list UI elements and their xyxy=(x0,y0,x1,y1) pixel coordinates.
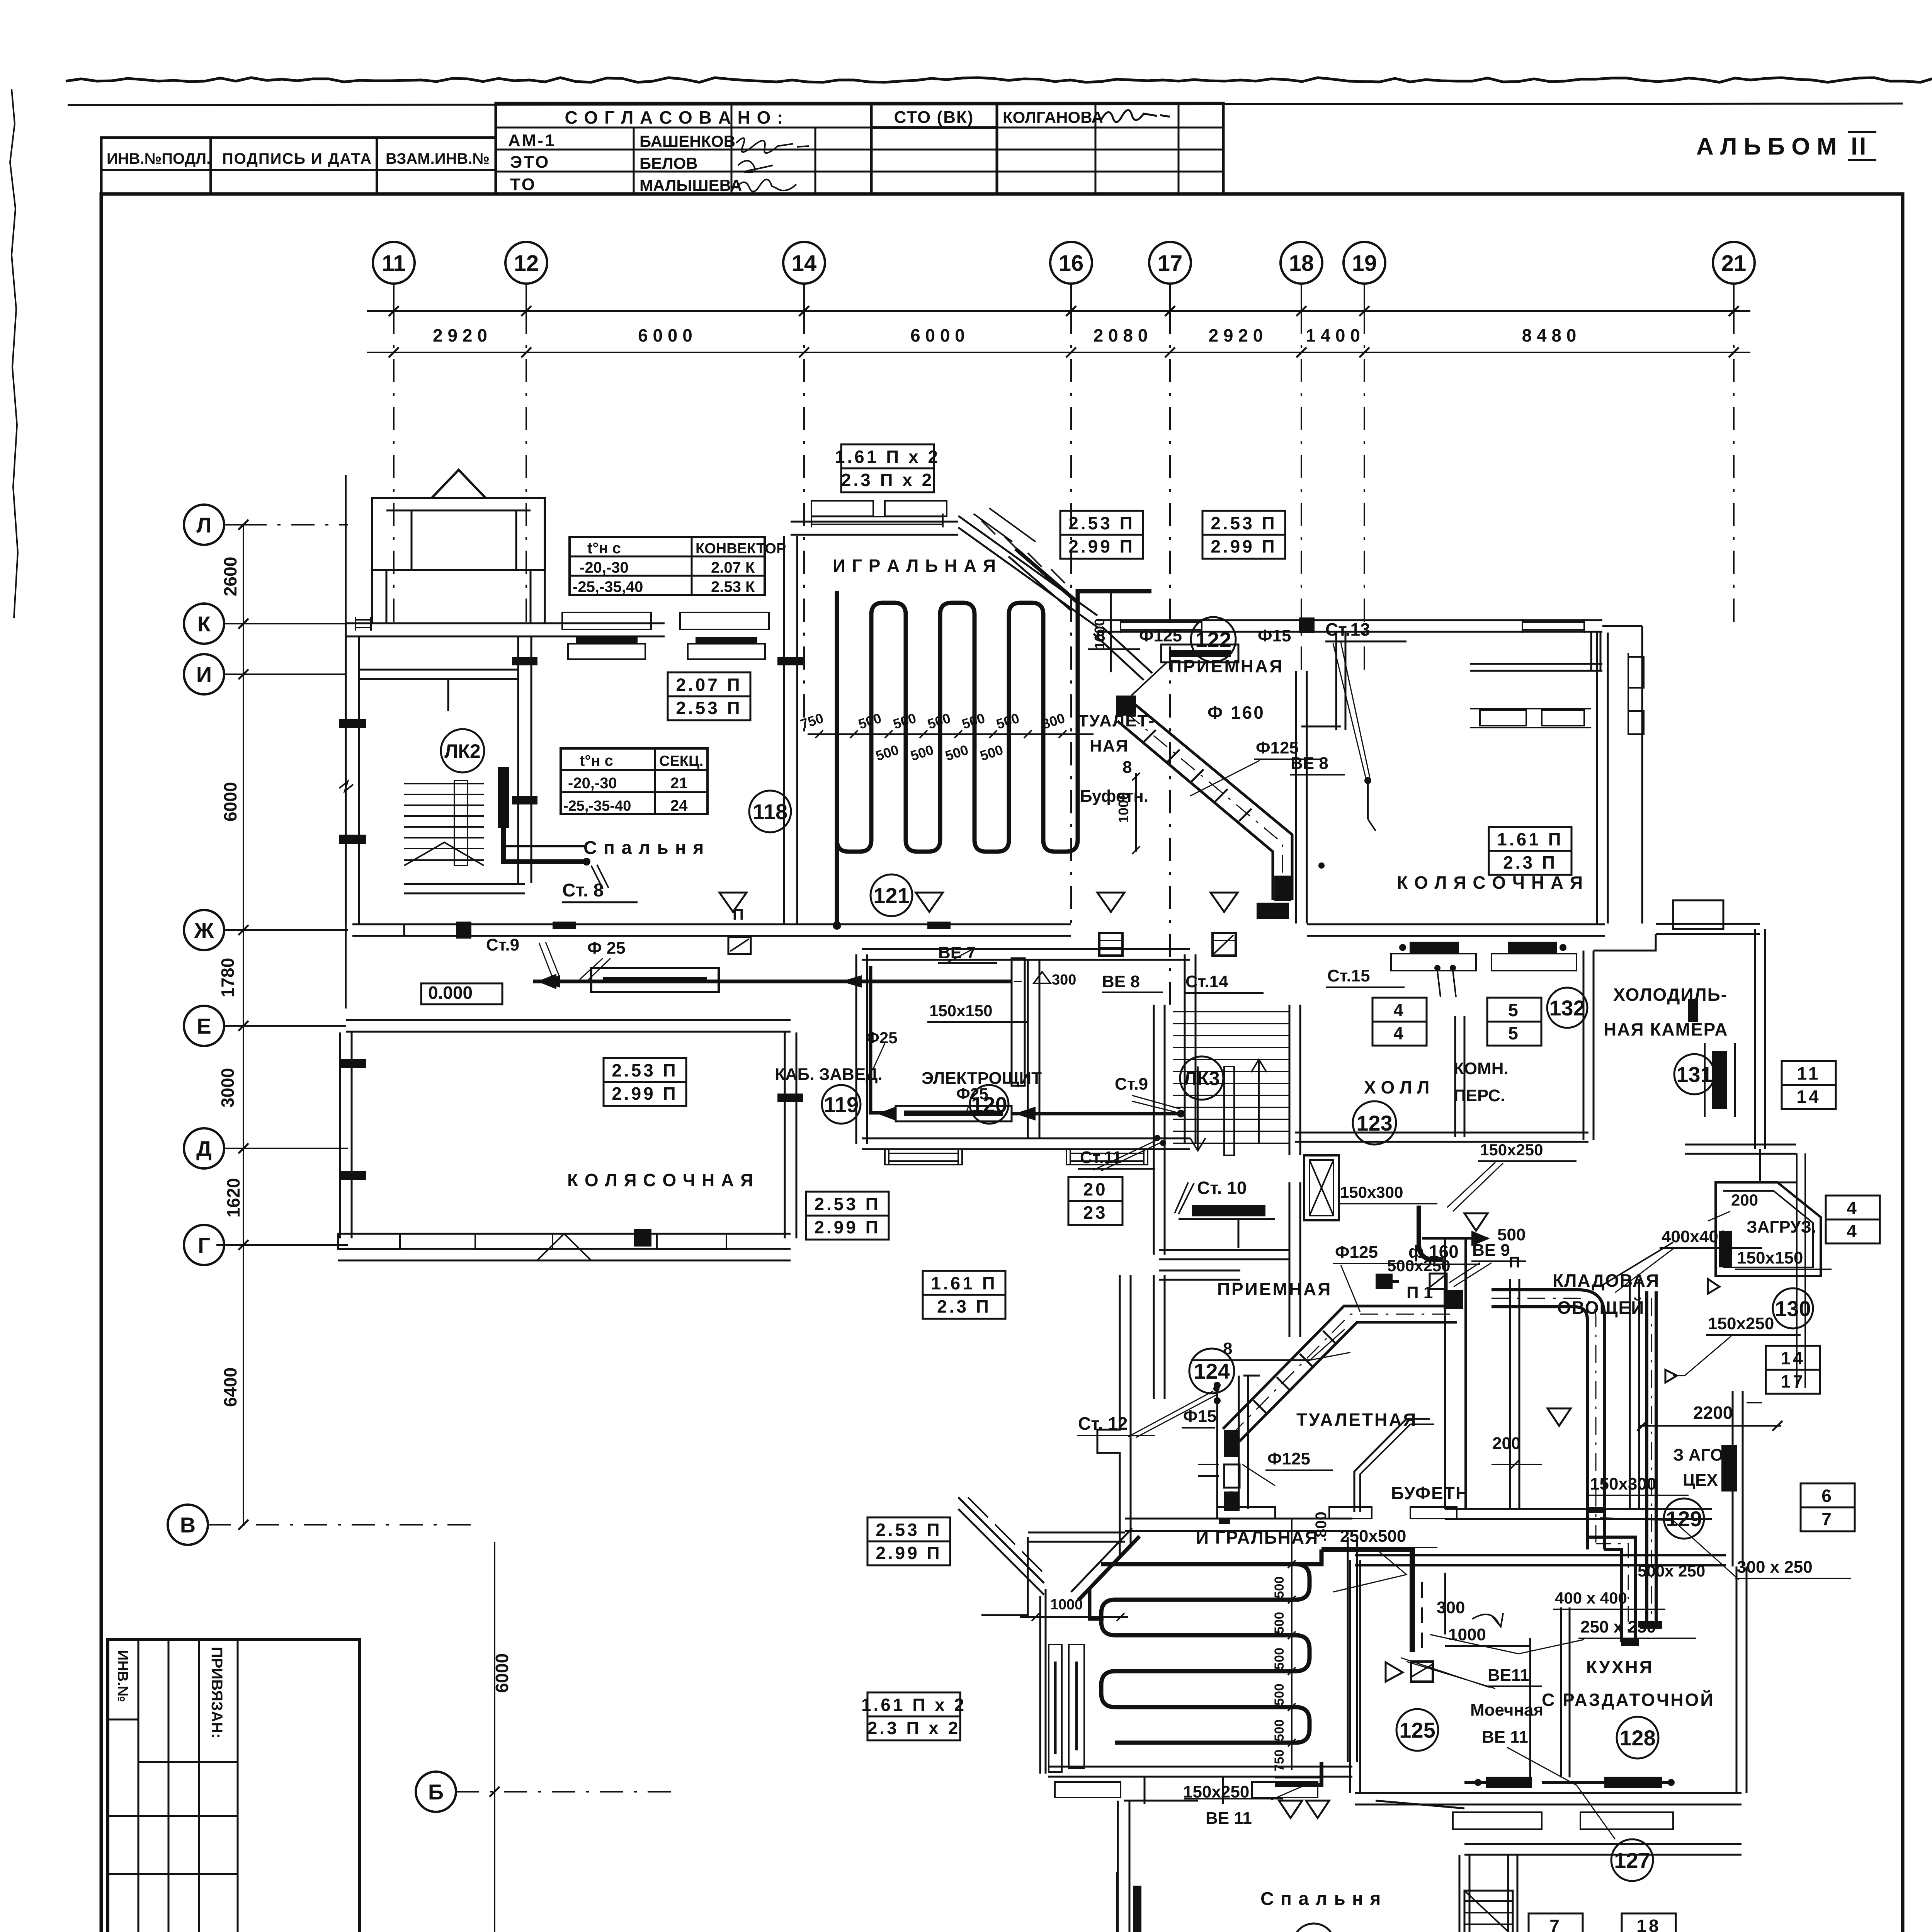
east wall 126 up to stair xyxy=(1459,1855,1461,1932)
svg-text:ПОДПИСЬ И ДАТА: ПОДПИСЬ И ДАТА xyxy=(222,150,372,167)
wing window assemblies vertical xyxy=(1049,1645,1062,1772)
ф15 pipe and black elbow (lower left of duct) xyxy=(1219,1519,1230,1524)
bottom wall under кладовая xyxy=(1445,1508,1712,1510)
svg-text:АМ-1: АМ-1 xyxy=(508,131,556,150)
svg-text:.800: .800 xyxy=(1313,1512,1330,1542)
мойечная partition xyxy=(1529,1638,1531,1777)
arrow into комн перс xyxy=(1422,1237,1488,1240)
svg-text:14: 14 xyxy=(1781,1348,1805,1368)
svg-text:500: 500 xyxy=(1272,1684,1287,1706)
svg-text:И: И xyxy=(196,662,212,687)
svg-text:500х 250: 500х 250 xyxy=(1638,1562,1705,1580)
title block outer rect xyxy=(108,1639,359,1932)
corridor bottom wall row E (left part) xyxy=(346,1019,791,1021)
wall between загот and кухня xyxy=(1355,1554,1726,1556)
кухня bottom wall with windows xyxy=(1355,1792,1742,1794)
radiator under corridor window xyxy=(591,968,719,992)
svg-text:КОНВЕКТОР: КОНВЕКТОР xyxy=(696,541,786,557)
svg-text:150х150: 150х150 xyxy=(1737,1248,1803,1267)
table 6/7 xyxy=(1801,1483,1855,1531)
St.14/15 leader dots xyxy=(1318,862,1325,869)
supply grille горизонт 150x300 xyxy=(1376,1280,1399,1283)
svg-text:500: 500 xyxy=(1272,1719,1287,1742)
svg-text:Ф 25: Ф 25 xyxy=(587,939,626,957)
corridor pipe arrow right side xyxy=(835,980,1012,983)
svg-text:122: 122 xyxy=(1195,628,1231,652)
koljas right window band inner xyxy=(1470,708,1591,709)
diagonal window radiator at wing neck xyxy=(1078,1536,1139,1600)
second vertical duct to загот/кухня xyxy=(1645,1291,1648,1625)
svg-text:0.000: 0.000 xyxy=(428,983,473,1003)
svg-text:400х400: 400х400 xyxy=(1662,1227,1728,1246)
st13 alcove wall xyxy=(1335,633,1337,730)
grid circle Г xyxy=(184,1225,224,1265)
svg-text:С п а л ь н я: С п а л ь н я xyxy=(1260,1889,1381,1909)
svg-text:4: 4 xyxy=(1393,1000,1406,1020)
svg-text:2.07 П: 2.07 П xyxy=(676,675,742,695)
svg-text:ЭТО: ЭТО xyxy=(510,153,550,172)
svg-text:ВЕ 7: ВЕ 7 xyxy=(938,943,976,962)
svg-text:2.3 П х 2: 2.3 П х 2 xyxy=(841,470,934,490)
svg-text:8: 8 xyxy=(1227,1488,1236,1507)
дым duct in комн перс xyxy=(1419,1206,1444,1260)
svg-text:4: 4 xyxy=(1393,1023,1406,1043)
svg-text:200: 200 xyxy=(1492,1434,1520,1453)
svg-text:ИНВ.№: ИНВ.№ xyxy=(114,1650,131,1702)
svg-text:18: 18 xyxy=(1636,1916,1661,1932)
svg-text:Х О Л Л: Х О Л Л xyxy=(1364,1077,1429,1097)
svg-text:К: К xyxy=(197,612,211,636)
svg-text:ЦЕХ: ЦЕХ xyxy=(1683,1471,1718,1490)
feeds at P1 top xyxy=(1444,1290,1463,1309)
svg-text:2.3 П: 2.3 П xyxy=(1503,852,1557,872)
duct 124 hatches xyxy=(1253,1400,1266,1413)
мойечная grille 150x250 xyxy=(1275,1762,1321,1785)
svg-text:ТУАЛЕТНАЯ: ТУАЛЕТНАЯ xyxy=(1296,1410,1418,1430)
left scan edge marks xyxy=(10,89,18,618)
svg-text:2.99 П: 2.99 П xyxy=(814,1217,880,1237)
svg-text:11: 11 xyxy=(1797,1063,1821,1083)
svg-text:2.53 П: 2.53 П xyxy=(612,1060,678,1080)
svg-text:150х150: 150х150 xyxy=(929,1002,993,1020)
upper small table lines xyxy=(138,1639,139,1932)
diagonal window radiator on wing xyxy=(1015,549,1078,603)
svg-text:150х300: 150х300 xyxy=(1590,1475,1656,1493)
svg-text:2.3 П х 2: 2.3 П х 2 xyxy=(867,1718,961,1738)
duct 124 black elbow bottom xyxy=(1224,1430,1240,1457)
grid circle И xyxy=(184,654,224,694)
down triangles near 121/118 xyxy=(916,893,943,912)
svg-text:ОВОЩЕЙ: ОВОЩЕЙ xyxy=(1557,1298,1645,1318)
svg-text:2.99 П: 2.99 П xyxy=(1068,536,1134,556)
sills below 125 wall xyxy=(1055,1782,1121,1798)
svg-text:1000: 1000 xyxy=(1050,1597,1083,1613)
svg-text:НАЯ: НАЯ xyxy=(1090,736,1129,755)
svg-text:ПРИВЯЗАН:: ПРИВЯЗАН: xyxy=(208,1647,225,1738)
svg-text:БАШЕНКОВ: БАШЕНКОВ xyxy=(639,132,735,150)
svg-text:Г: Г xyxy=(198,1233,210,1257)
svg-text:НАЯ КАМЕРА: НАЯ КАМЕРА xyxy=(1604,1019,1728,1039)
svg-text:17: 17 xyxy=(1158,251,1183,276)
svg-text:t°н с: t°н с xyxy=(580,752,613,769)
lower diagonal supply duct to 124 xyxy=(1223,1306,1457,1429)
svg-text:12: 12 xyxy=(514,251,539,276)
комн.перс west wall xyxy=(1454,1016,1456,1137)
ЛК circles xyxy=(441,729,484,772)
BE8 triangle xyxy=(1211,893,1238,912)
labels right side upper xyxy=(1547,988,1587,1028)
grid circle Л xyxy=(184,505,224,545)
St.13 riser dots upper xyxy=(1364,777,1371,784)
svg-text:ХОЛОДИЛЬ-: ХОЛОДИЛЬ- xyxy=(1613,985,1728,1005)
svg-text:2.99 П: 2.99 П xyxy=(1211,536,1277,556)
svg-text:II: II xyxy=(1851,132,1868,160)
table 1.61Пх2 bottom xyxy=(861,1692,966,1740)
svg-text:129: 129 xyxy=(1666,1507,1702,1531)
svg-text:300 х 250: 300 х 250 xyxy=(1737,1558,1813,1577)
svg-text:Ст.9: Ст.9 xyxy=(486,935,519,954)
svg-text:БУФЕТН: БУФЕТН xyxy=(1391,1483,1469,1503)
coil 118 top feed to window radiator xyxy=(1078,591,1151,641)
svg-text:750: 750 xyxy=(1272,1750,1287,1772)
svg-text:6 0 0 0: 6 0 0 0 xyxy=(638,325,692,345)
buffet sills bottom xyxy=(1217,1507,1275,1519)
grid circle К xyxy=(184,604,224,644)
svg-text:2.53 П: 2.53 П xyxy=(1068,513,1134,533)
svg-text:ВЕ 8: ВЕ 8 xyxy=(1291,754,1328,773)
sleeping room 118 east wall xyxy=(783,536,785,923)
кладовая walls xyxy=(1509,1279,1511,1509)
svg-text:130: 130 xyxy=(1775,1296,1811,1321)
svg-text:2.53 К: 2.53 К xyxy=(711,578,755,595)
svg-text:124: 124 xyxy=(1194,1359,1230,1383)
svg-text:2.53 П: 2.53 П xyxy=(876,1520,942,1540)
svg-text:П 1: П 1 xyxy=(1406,1283,1433,1302)
north wall diagonal wing (45deg) with windows xyxy=(958,516,1097,616)
svg-text:18: 18 xyxy=(1289,251,1314,276)
stairs LK2 rail xyxy=(454,781,468,866)
svg-text:Ф 160: Ф 160 xyxy=(1207,702,1265,723)
svg-text:3000: 3000 xyxy=(218,1068,238,1107)
table 18/21 xyxy=(1622,1913,1676,1932)
svg-text:КАБ. ЗАВЕД.: КАБ. ЗАВЕД. xyxy=(775,1065,883,1084)
table 4/4 холл xyxy=(1372,998,1427,1046)
thick feed elbow to coil xyxy=(1090,1536,1139,1619)
svg-text:2.53 П: 2.53 П xyxy=(676,698,742,718)
svg-text:-25,-35,40: -25,-35,40 xyxy=(573,578,643,595)
bottom wall of 124 block (row B) xyxy=(1125,1518,1352,1520)
kitchen loop bottom elbow to кухня xyxy=(1587,1537,1635,1642)
150x150 vertical duct below corridor xyxy=(1012,958,1025,1086)
table 2.53П wing xyxy=(867,1517,950,1565)
svg-text:6000: 6000 xyxy=(492,1653,512,1693)
NE corner closing wall xyxy=(1602,625,1642,627)
порог to спальня xyxy=(1144,1777,1146,1804)
svg-text:2.99 П: 2.99 П xyxy=(612,1083,678,1104)
svg-text:132: 132 xyxy=(1549,996,1585,1020)
window radiator feeding duct 122 xyxy=(1161,645,1238,662)
svg-text:1620: 1620 xyxy=(223,1178,243,1218)
table 1.61П right xyxy=(1489,827,1571,875)
table 2.07П/2.53П xyxy=(668,672,750,720)
svg-text:150х250: 150х250 xyxy=(1708,1314,1774,1333)
svg-text:КОМН.: КОМН. xyxy=(1454,1059,1509,1078)
partition between kab and electro xyxy=(1027,960,1029,1138)
svg-text:ЛК3: ЛК3 xyxy=(1184,1068,1219,1089)
дуct 250x250 центр (большая vertical) xyxy=(1410,1582,1415,1652)
top dimension line 2 xyxy=(367,352,1750,353)
pipe down from corridor to kab.zaved (f25) xyxy=(871,966,885,1113)
second diagonal window below wing xyxy=(1094,634,1144,680)
grid circle 18 xyxy=(1281,242,1322,284)
grid circle Ж xyxy=(184,910,224,950)
bottom right stair block xyxy=(1464,1891,1513,1932)
corridor opening marks xyxy=(403,923,405,937)
svg-text:Ст. 12: Ст. 12 xyxy=(1078,1413,1128,1434)
svg-text:1.61 П х 2: 1.61 П х 2 xyxy=(835,447,940,467)
table 14/17 xyxy=(1766,1346,1820,1394)
left header table: inv/podp/vzam xyxy=(101,138,496,194)
svg-text:400 х 400: 400 х 400 xyxy=(1555,1589,1627,1607)
svg-text:Ст. 8: Ст. 8 xyxy=(562,880,604,901)
svg-text:7: 7 xyxy=(1549,1916,1562,1932)
svg-text:2.53 П: 2.53 П xyxy=(814,1194,880,1214)
svg-text:8 4 8 0: 8 4 8 0 xyxy=(1522,325,1577,345)
igralnaya top wall xyxy=(791,521,958,523)
svg-text:500: 500 xyxy=(1272,1577,1287,1599)
svg-text:5: 5 xyxy=(1508,1000,1520,1020)
svg-text:И ГРАЛЬНАЯ: И ГРАЛЬНАЯ xyxy=(1196,1527,1318,1548)
svg-text:300: 300 xyxy=(1437,1598,1465,1617)
kitchen duct flange marks xyxy=(1587,1507,1604,1513)
table 2.53П pair upper right xyxy=(1060,511,1143,559)
svg-text:119: 119 xyxy=(824,1092,859,1117)
svg-text:2 9 2 0: 2 9 2 0 xyxy=(1209,325,1263,345)
кладовая/загруз east wall xyxy=(1629,1279,1631,1509)
svg-text:300: 300 xyxy=(1052,972,1076,988)
svg-text:Ж: Ж xyxy=(194,918,214,942)
И row wall in stair block xyxy=(359,669,518,671)
pier on north wall near st13 xyxy=(1299,617,1315,633)
комн.перс bottom wall long xyxy=(1295,1132,1588,1134)
window hatch on diagonal xyxy=(981,520,995,534)
igralnaya top windows sills xyxy=(811,501,873,516)
coil 125 end stub xyxy=(1101,1562,1117,1566)
кухня radiator pipes long xyxy=(1542,1781,1584,1784)
coil125 feed line from duct xyxy=(1101,1549,1321,1564)
svg-text:21: 21 xyxy=(670,775,688,792)
east outer face wall x4250 xyxy=(1641,626,1643,923)
east wall at stair xyxy=(1507,1855,1509,1932)
svg-text:Л: Л xyxy=(196,513,211,537)
svg-text:Ф15: Ф15 xyxy=(1258,626,1291,645)
duct 250x500 horizontal верх игральной xyxy=(1321,1549,1412,1582)
north wall right wing xyxy=(1097,619,1602,621)
svg-text:2 0 8 0: 2 0 8 0 xyxy=(1094,325,1148,345)
LK3 center rail xyxy=(1224,1066,1234,1155)
svg-text:14: 14 xyxy=(792,251,817,276)
west wall of 124 block xyxy=(1119,1275,1121,1399)
diagonal window hatches xyxy=(968,1497,988,1517)
grid circle 19 xyxy=(1344,242,1385,284)
svg-text:С РАЗДАТОЧНОЙ: С РАЗДАТОЧНОЙ xyxy=(1542,1690,1715,1710)
загруз dock polygon xyxy=(1716,1182,1821,1276)
svg-text:11: 11 xyxy=(382,251,405,276)
left end wall of 125 xyxy=(981,1537,1028,1615)
upper diagonal exhaust duct (122) dual-line xyxy=(1134,704,1292,900)
svg-text:-20,-30: -20,-30 xyxy=(568,775,617,792)
svg-text:150х250: 150х250 xyxy=(1480,1141,1543,1159)
radiator on west wall xyxy=(1133,1886,1141,1932)
svg-text:ЗАГРУЗ.: ЗАГРУЗ. xyxy=(1747,1218,1816,1236)
stairs LK2 diagonal xyxy=(404,842,484,866)
svg-text:ВЕ11: ВЕ11 xyxy=(1488,1666,1529,1685)
grid circle 17 xyxy=(1149,242,1191,284)
P1 vent shaft vertical xyxy=(1444,1238,1446,1509)
svg-text:К О Л Я С О Ч Н А Я: К О Л Я С О Ч Н А Я xyxy=(1397,872,1583,893)
duct 122 elbow bottom black xyxy=(1257,903,1289,919)
svg-text:Ф25: Ф25 xyxy=(866,1029,898,1047)
table 2.53П left mid xyxy=(604,1058,686,1106)
LK3 treads xyxy=(1173,1011,1289,1012)
BE7 box xyxy=(1099,933,1122,956)
west side diagonal wing wall xyxy=(958,1497,1044,1583)
svg-text:Д: Д xyxy=(196,1136,212,1161)
table 5/5 xyxy=(1487,998,1541,1046)
vestibule partition below И xyxy=(447,679,449,711)
svg-text:Моечная: Моечная xyxy=(1470,1701,1543,1719)
svg-text:250х500: 250х500 xyxy=(1340,1527,1406,1546)
svg-text:Б: Б xyxy=(428,1780,444,1804)
вент каналы near stair 127 xyxy=(1560,1607,1562,1777)
center pier window band xyxy=(537,1234,591,1260)
svg-text:7: 7 xyxy=(1821,1509,1834,1529)
corridor main pipe with arrows (0.000 area) xyxy=(533,980,835,983)
duct 122 top connection black xyxy=(1116,696,1136,716)
grid circle 21 xyxy=(1713,242,1755,284)
kitchen supply loop duct (кладовая->кухня) xyxy=(1492,1290,1604,1549)
дим line through coil 118 xyxy=(808,733,1094,735)
west wall piers xyxy=(339,719,366,728)
svg-text:19: 19 xyxy=(1352,251,1377,276)
svg-text:1 4 0 0: 1 4 0 0 xyxy=(1306,325,1360,345)
kab radiator and arrows xyxy=(896,1106,1012,1121)
svg-text:131: 131 xyxy=(1676,1062,1712,1087)
svg-text:500: 500 xyxy=(1272,1612,1287,1634)
sto (vk) box xyxy=(871,103,997,128)
closet row bottom xyxy=(1470,663,1602,665)
svg-text:Ст.15: Ст.15 xyxy=(1327,966,1370,985)
misc arrows near st9 xyxy=(539,942,560,978)
LK3 east wall xyxy=(1289,1005,1291,1155)
кухня radiators xyxy=(1486,1777,1532,1788)
duct 122 hatch marks xyxy=(1143,730,1156,742)
west wall 126 xyxy=(1117,1801,1119,1932)
svg-text:1.61 П: 1.61 П xyxy=(1497,829,1563,849)
svg-text:ВЗАМ.ИНВ.№: ВЗАМ.ИНВ.№ xyxy=(386,150,490,167)
svg-text:21: 21 xyxy=(1721,251,1747,276)
stair LK2 bottom wall xyxy=(404,883,525,885)
table 4/4 right xyxy=(1826,1196,1880,1243)
кухня west wall xyxy=(1349,1560,1351,1793)
svg-text:-20,-30: -20,-30 xyxy=(580,559,629,576)
объект near bottom duct - risers xyxy=(1214,1382,1221,1389)
svg-text:ПЕРС.: ПЕРС. xyxy=(1454,1086,1505,1105)
svg-text:БЕЛОВ: БЕЛОВ xyxy=(639,154,698,172)
svg-text:ТУАЛЕТ-: ТУАЛЕТ- xyxy=(1078,711,1155,730)
table 20/23 xyxy=(1068,1177,1122,1225)
svg-text:2.99 П: 2.99 П xyxy=(876,1543,942,1563)
heating coil 118 serpentine xyxy=(837,591,1078,852)
soglasovano table xyxy=(496,103,871,194)
LK3 arrows xyxy=(1190,1066,1206,1151)
windows below block xyxy=(885,1149,962,1165)
1000 dim left of coil 125 xyxy=(1020,1616,1128,1618)
svg-text:2 9 2 0: 2 9 2 0 xyxy=(433,325,487,345)
east wall left koljasochnaja xyxy=(784,1032,786,1238)
stair block east wall xyxy=(517,636,519,883)
svg-text:16: 16 xyxy=(1059,251,1084,276)
svg-text:4: 4 xyxy=(1847,1221,1859,1241)
svg-text:200: 200 xyxy=(1731,1191,1758,1209)
BE8 box2 xyxy=(1213,933,1236,956)
grid circle Д xyxy=(184,1128,224,1168)
svg-text:КЛАДОВАЯ: КЛАДОВАЯ xyxy=(1553,1270,1660,1291)
125 room bottom wall xyxy=(1048,1766,1352,1768)
svg-text:А Л Ь Б О М: А Л Ь Б О М xyxy=(1696,133,1837,160)
svg-text:500х250: 500х250 xyxy=(1387,1257,1451,1275)
svg-text:Ф125: Ф125 xyxy=(1267,1449,1310,1468)
svg-text:1780: 1780 xyxy=(218,958,238,997)
grid circle 16 xyxy=(1050,242,1092,284)
svg-text:5: 5 xyxy=(1508,1023,1520,1043)
sheet top inner line xyxy=(68,104,1903,105)
svg-text:ПРИЕМНАЯ: ПРИЕМНАЯ xyxy=(1217,1279,1332,1299)
koljas right west wall xyxy=(1295,671,1297,923)
porch walls xyxy=(372,498,545,570)
grid circle 11 xyxy=(373,242,415,284)
300 level mark near электрощит xyxy=(1034,972,1051,983)
table 7/6 xyxy=(1529,1913,1583,1932)
coil 125 serpentine xyxy=(1101,1564,1310,1743)
bottom of холодильная wing xyxy=(1685,1144,1796,1146)
triangles at мойечная xyxy=(1279,1801,1302,1818)
table конвектор xyxy=(570,537,786,595)
svg-text:С п а л ь н я: С п а л ь н я xyxy=(583,838,704,858)
table секции xyxy=(561,748,707,814)
svg-text:Буфетн.: Буфетн. xyxy=(1080,787,1148,806)
svg-text:24: 24 xyxy=(670,797,688,814)
corridor supply pipe upper (st.8->) xyxy=(587,861,603,862)
svg-text:ПРИЕМНАЯ: ПРИЕМНАЯ xyxy=(1169,656,1284,676)
холодильная west wall xyxy=(1583,951,1585,1140)
svg-text:С О Г Л А С О В А Н О :: С О Г Л А С О В А Н О : xyxy=(565,107,784,128)
svg-text:4: 4 xyxy=(1847,1198,1859,1218)
svg-text:150х300: 150х300 xyxy=(1340,1183,1403,1201)
pipe elbow from riser to St.8 xyxy=(503,828,587,862)
grid circle Е xyxy=(184,1006,224,1046)
east big wall x4147 xyxy=(1596,633,1598,923)
svg-text:17: 17 xyxy=(1781,1371,1805,1391)
svg-text:Ф15: Ф15 xyxy=(1183,1407,1217,1426)
north wall of block 124 xyxy=(1159,1270,1240,1272)
svg-text:8: 8 xyxy=(1122,758,1132,777)
porch roof triangle xyxy=(432,470,486,498)
svg-text:Ф125: Ф125 xyxy=(1139,626,1182,645)
порог 126 top wall xyxy=(1124,1800,1198,1802)
svg-text:2.07 К: 2.07 К xyxy=(711,559,755,576)
svg-text:Ст.9: Ст.9 xyxy=(1115,1075,1148,1094)
